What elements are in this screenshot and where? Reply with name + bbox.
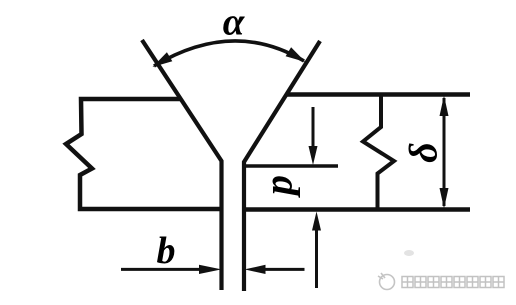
- svg-text:α: α: [223, 1, 246, 44]
- arc arrowhead right: [286, 47, 306, 62]
- angle dimension arc: [154, 41, 304, 66]
- faint smudge: [404, 250, 414, 256]
- right plate break line: [363, 96, 394, 208]
- p upper arrowhead (down): [309, 146, 318, 165]
- p lower arrowhead (up): [312, 212, 321, 231]
- delta dimension line: [443, 98, 446, 206]
- svg-text:δ: δ: [401, 142, 446, 163]
- root face line (p extension line): [244, 164, 338, 168]
- b right arrowhead (left): [245, 265, 266, 274]
- svg-text:b: b: [157, 230, 176, 272]
- b dimension right line: [262, 268, 305, 271]
- watermark logo circle: [378, 273, 395, 290]
- delta arrowhead top: [440, 96, 449, 117]
- arc arrowhead left: [153, 52, 173, 67]
- right plate bottom edge: [243, 207, 470, 212]
- p dimension lower line: [315, 229, 318, 288]
- svg-text:p: p: [256, 175, 301, 198]
- b left arrowhead (right): [199, 265, 222, 274]
- delta arrowhead bottom: [440, 188, 449, 209]
- right bevel edge and right root edge: [244, 41, 320, 291]
- p dimension upper line: [312, 107, 315, 150]
- left bevel edge and left root edge: [142, 40, 222, 290]
- watermark text blocks: [402, 277, 504, 288]
- b dimension left line: [121, 268, 201, 271]
- right plate top edge: [287, 92, 470, 97]
- left plate outline with break line: [66, 99, 222, 209]
